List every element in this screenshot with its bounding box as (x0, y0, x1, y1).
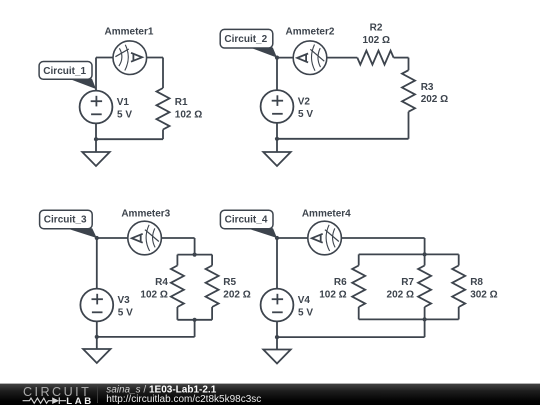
svg-text:Ammeter2: Ammeter2 (286, 26, 335, 37)
parallel top bar (177, 254, 212, 256)
wire R5 to bottom bar (211, 307, 213, 320)
wire R6 to bottom bar (358, 307, 360, 319)
svg-text:R6: R6 (334, 277, 347, 288)
wire down to R1 (162, 58, 164, 89)
svg-text:http://circuitlab.com/c2t8k5k9: http://circuitlab.com/c2t8k5k98c3sc (106, 394, 261, 405)
wire V3 top (96, 238, 98, 289)
svg-text:Circuit_1: Circuit_1 (43, 66, 86, 77)
wire to R4 (176, 255, 178, 266)
resistor R4 (171, 266, 184, 308)
wire node to Ammeter2 (277, 57, 293, 59)
wire R3 to bottom (408, 112, 410, 139)
resistor R7 (418, 266, 431, 308)
junction parallel top (423, 252, 427, 256)
svg-text:R2: R2 (370, 22, 383, 33)
svg-text:LAB: LAB (66, 396, 94, 405)
wire V2 bottom (276, 123, 278, 139)
wire node to Ammeter3 (97, 237, 128, 239)
wire to R5 (211, 255, 213, 266)
logo schematic glyph: wire, resistor, diode (23, 398, 53, 403)
junction top node circuit 3 (95, 236, 99, 240)
ground (83, 349, 110, 363)
wire V4 top (276, 238, 278, 289)
wire to R8 (458, 254, 460, 265)
junction V2-bottom node (275, 137, 279, 141)
wire down from parallel (194, 320, 196, 337)
wire to ground (276, 337, 278, 349)
wire V1-top to Ammeter1 (96, 57, 113, 59)
annotation callout Circuit_4 (220, 210, 277, 238)
svg-text:V4: V4 (298, 295, 311, 306)
junction parallel top (193, 253, 197, 257)
parallel bottom bar (177, 319, 212, 321)
svg-text:R4: R4 (155, 277, 168, 288)
ammeter Ammeter3 (128, 221, 162, 255)
wire R4 to bottom bar (176, 307, 178, 320)
junction top node circuit 2 (275, 56, 279, 60)
svg-text:302 Ω: 302 Ω (470, 289, 497, 300)
bottom wire to node (277, 138, 409, 140)
parallel top bar (359, 253, 459, 255)
wire Ammeter4 to corner (341, 237, 424, 239)
wire down to R3 (408, 58, 410, 71)
ground (263, 350, 290, 364)
junction top node circuit 4 (275, 236, 279, 240)
svg-text:V2: V2 (298, 97, 311, 108)
junction parallel bottom (193, 318, 197, 322)
resistor R1 (157, 88, 170, 130)
svg-text:V3: V3 (118, 295, 131, 306)
svg-text:R1: R1 (175, 97, 188, 108)
wire to R6 (358, 254, 360, 265)
footer divider (97, 386, 99, 403)
junction V4-bottom node (275, 335, 279, 339)
resistor R8 (452, 266, 465, 308)
ammeter Ammeter1 (113, 41, 147, 75)
svg-text:R8: R8 (470, 277, 483, 288)
ammeter Ammeter4 (308, 221, 342, 255)
wire Ammeter3 to corner (161, 237, 194, 239)
svg-text:5 V: 5 V (118, 308, 133, 319)
ammeter Ammeter2 (293, 41, 327, 75)
resistor R2 (357, 51, 393, 65)
svg-text:5 V: 5 V (298, 308, 313, 319)
voltage source V3 (80, 289, 113, 322)
resistor R5 (206, 266, 219, 308)
parallel bottom bar (359, 318, 459, 320)
resistor R6 (352, 266, 365, 308)
svg-text:102 Ω: 102 Ω (140, 289, 167, 300)
voltage source V2 (261, 90, 294, 123)
svg-text:Circuit_2: Circuit_2 (224, 34, 267, 45)
wire V1 top (95, 58, 97, 91)
wire to R7 (424, 254, 426, 265)
wire R1 to bottom (162, 130, 164, 140)
svg-text:102 Ω: 102 Ω (175, 110, 202, 121)
wire V2 top (276, 58, 278, 91)
svg-text:Circuit_3: Circuit_3 (44, 215, 87, 226)
wire down from parallel (424, 319, 426, 337)
svg-text:5 V: 5 V (117, 110, 132, 121)
svg-text:R7: R7 (401, 277, 414, 288)
wire to ground (95, 139, 97, 152)
svg-text:102 Ω: 102 Ω (319, 289, 346, 300)
svg-text:5 V: 5 V (298, 109, 313, 120)
wire Ammeter1 to corner (147, 57, 163, 59)
junction V1-bottom node (94, 137, 98, 141)
svg-text:V1: V1 (117, 97, 130, 108)
wire node to Ammeter4 (277, 237, 308, 239)
resistor R3 (402, 70, 415, 112)
wire V3 bottom (96, 321, 98, 337)
voltage source V1 (80, 91, 113, 124)
ground (263, 152, 290, 166)
bottom wire to node (277, 336, 425, 338)
bottom wire to node (97, 336, 195, 338)
svg-text:Ammeter3: Ammeter3 (121, 208, 170, 219)
wire R7 to bottom bar (424, 307, 426, 319)
voltage source V4 (261, 289, 294, 322)
svg-text:Ammeter4: Ammeter4 (302, 208, 351, 219)
svg-text:R5: R5 (223, 277, 236, 288)
junction parallel bottom (423, 317, 427, 321)
svg-text:Ammeter1: Ammeter1 (105, 27, 154, 38)
svg-text:Circuit_4: Circuit_4 (225, 215, 268, 226)
wire to ground (276, 139, 278, 152)
annotation callout Circuit_3 (40, 210, 97, 238)
junction V3-bottom node (95, 335, 99, 339)
svg-text:102 Ω: 102 Ω (363, 35, 390, 46)
wire Ammeter2 to R2 (327, 57, 358, 59)
wire down to parallel top bar (194, 238, 196, 255)
annotation callout Circuit_2 (220, 29, 277, 57)
bottom wire to node (96, 138, 163, 140)
wire down to parallel top bar (424, 238, 426, 254)
svg-text:R3: R3 (421, 82, 434, 93)
svg-text:202 Ω: 202 Ω (223, 289, 250, 300)
ground (82, 152, 109, 166)
wire to ground (96, 337, 98, 349)
svg-text:202 Ω: 202 Ω (387, 289, 414, 300)
wire V1 bottom (95, 123, 97, 139)
wire R2 to corner (394, 57, 409, 59)
wire V4 bottom (276, 321, 278, 337)
annotation callout Circuit_1 (39, 62, 96, 90)
svg-text:202 Ω: 202 Ω (421, 94, 448, 105)
wire R8 to bottom bar (458, 307, 460, 319)
